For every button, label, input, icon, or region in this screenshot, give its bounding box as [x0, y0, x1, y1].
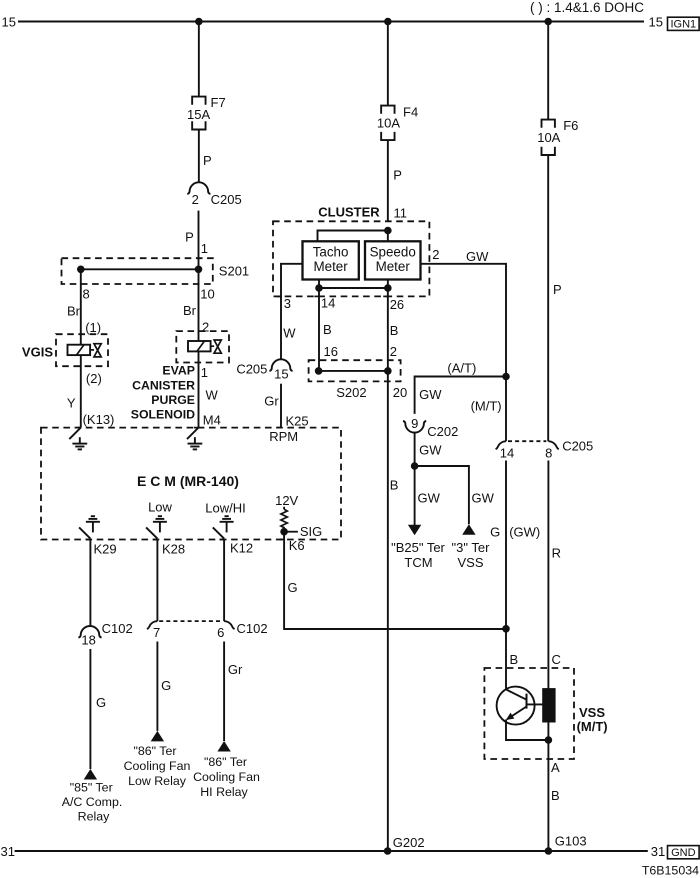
CLUSTER dashed box [273, 221, 429, 296]
arrow to A/C comp relay [84, 769, 97, 780]
pin tick K29 [86, 539, 91, 541]
VSS dashed box [484, 668, 574, 759]
pin tick K28 [153, 539, 158, 541]
EVAP dashed box [176, 331, 229, 362]
transistor base bar [526, 694, 528, 709]
svg-text:P: P [185, 230, 194, 245]
pin tick K25 [276, 427, 281, 429]
svg-text:11: 11 [394, 206, 408, 221]
wire S201 to VGIS [80, 269, 82, 344]
svg-text:8: 8 [545, 446, 552, 461]
svg-text:16: 16 [324, 344, 338, 359]
svg-text:12V: 12V [275, 493, 298, 508]
bus 15 ignition rail [18, 21, 644, 23]
svg-text:10A: 10A [377, 116, 400, 131]
svg-text:F6: F6 [563, 118, 578, 133]
node VSS emitter junction [545, 736, 553, 744]
fuse F6 [542, 120, 555, 128]
wire S201 internal link [81, 268, 199, 270]
svg-text:K12: K12 [230, 541, 253, 556]
solenoid VGIS valve stub [90, 349, 94, 351]
dashed link C102 [159, 620, 222, 622]
svg-text:G: G [490, 524, 500, 539]
switch K13 blade [69, 428, 81, 440]
ground M4 [194, 437, 196, 443]
svg-text:18: 18 [81, 632, 95, 647]
svg-text:Relay: Relay [78, 809, 110, 823]
svg-text:(2): (2) [86, 371, 102, 386]
solenoid VGIS valve [94, 344, 101, 357]
pin tick K13 [76, 427, 81, 429]
connector C205 pin 14 hook [496, 441, 506, 449]
transistor VSS sensor circle [497, 687, 535, 725]
svg-text:C202: C202 [427, 424, 458, 439]
svg-text:W: W [206, 387, 219, 402]
svg-text:G: G [96, 695, 106, 710]
svg-text:(A/T): (A/T) [447, 361, 476, 376]
transistor emitter line [507, 707, 527, 720]
svg-text:IGN1: IGN1 [670, 19, 696, 31]
switch M4 blade [187, 428, 199, 440]
arrow in from VSS 3 [462, 524, 475, 535]
svg-text:G202: G202 [393, 835, 425, 850]
pin tick 26 [383, 295, 388, 297]
wire meters bottom link [319, 287, 388, 289]
svg-text:(M/T): (M/T) [471, 399, 502, 414]
svg-text:31: 31 [651, 844, 665, 859]
svg-text:GW: GW [419, 443, 442, 458]
svg-text:10A: 10A [537, 130, 560, 145]
svg-text:P: P [553, 282, 562, 297]
switch K29 blade [79, 527, 90, 538]
wire C202 to GW split [414, 433, 416, 466]
svg-text:(1): (1) [85, 320, 101, 335]
svg-text:VSS: VSS [579, 705, 605, 720]
GND terminal box [668, 846, 700, 859]
wire EVAP to ECM M4 [198, 351, 200, 427]
svg-text:E C M (MR-140): E C M (MR-140) [137, 473, 239, 489]
svg-text:TCM: TCM [404, 555, 432, 570]
node rail-F4 [384, 18, 392, 26]
svg-text:VSS: VSS [457, 555, 483, 570]
svg-text:GW: GW [466, 249, 489, 264]
bus 31 ground rail [15, 850, 648, 852]
svg-text:GW: GW [418, 490, 441, 505]
arrow to cooling fan low relay [151, 731, 164, 742]
wire speedo pin26 to ground G202 [387, 280, 389, 852]
connector C205 pin 8 hook [548, 441, 558, 449]
wire rail to F4 [387, 22, 389, 106]
wire 6 to relay arrow [223, 642, 225, 742]
svg-text:K29: K29 [94, 541, 117, 556]
svg-text:GW: GW [419, 387, 442, 402]
svg-text:S201: S201 [219, 263, 249, 278]
speedo meter box [365, 241, 421, 279]
svg-text:Cooling Fan: Cooling Fan [193, 770, 260, 784]
node ground G202 [384, 847, 392, 855]
splice S202 box [309, 360, 401, 381]
pin tick 14 [314, 295, 319, 297]
node ground G103 [545, 847, 553, 855]
svg-text:G103: G103 [555, 833, 587, 848]
svg-text:C205: C205 [236, 362, 267, 377]
svg-text:Tacho: Tacho [313, 245, 349, 260]
svg-text:G: G [288, 580, 298, 595]
connector C205 pin 2 [187, 182, 210, 194]
ground K29 inverted [92, 522, 94, 533]
svg-text:14: 14 [500, 446, 514, 461]
wire pin11 to speedo [387, 231, 389, 242]
svg-text:C205: C205 [562, 439, 593, 454]
wire VGIS to ECM K13 [80, 355, 82, 428]
node A/T junction [502, 373, 510, 381]
switch K28 blade [146, 527, 157, 538]
wire F7 to C205 pin2 [198, 130, 200, 183]
svg-text:B: B [510, 652, 519, 667]
svg-text:B: B [390, 477, 399, 492]
wire C205 pin15 to ECM K25 [280, 384, 282, 428]
splice S201 box [62, 258, 213, 284]
svg-text:S202: S202 [336, 385, 366, 400]
wire pin11 branch to tacho [318, 231, 388, 242]
svg-text:"3" Ter: "3" Ter [452, 540, 491, 555]
wire split to VSS arrow [415, 466, 469, 524]
svg-text:K28: K28 [162, 541, 185, 556]
pin tick 3 [276, 295, 281, 297]
wire rail to F6 [547, 22, 549, 120]
connector C205 pin 15 [269, 359, 292, 371]
svg-text:G: G [161, 678, 171, 693]
svg-text:Speedo: Speedo [370, 245, 416, 260]
svg-text:VGIS: VGIS [22, 345, 53, 360]
svg-text:PURGE: PURGE [151, 393, 195, 407]
node S202 right [384, 367, 392, 375]
pin tick M4 [194, 427, 199, 429]
wire 7 to relay arrow [156, 642, 158, 731]
svg-text:M4: M4 [203, 413, 221, 428]
svg-text:2: 2 [432, 247, 439, 262]
node meters link left [315, 284, 323, 292]
svg-text:7: 7 [153, 625, 160, 640]
svg-text:(M/T): (M/T) [577, 719, 608, 734]
wire F4 to cluster [387, 140, 389, 221]
svg-text:Br: Br [67, 303, 81, 318]
svg-text:Meter: Meter [313, 259, 348, 274]
solenoid EVAP valve stub [211, 345, 215, 347]
svg-text:F4: F4 [403, 104, 418, 119]
arrow to cooling fan hi relay [217, 741, 230, 752]
svg-text:(GW): (GW) [509, 524, 540, 539]
pin tick K6 [280, 539, 285, 541]
switch K12 blade [213, 527, 224, 538]
solenoid VGIS coil [68, 345, 91, 355]
svg-text:P: P [393, 167, 402, 182]
svg-text:B: B [323, 322, 332, 337]
node SIG [280, 528, 288, 536]
svg-text:A/C Comp.: A/C Comp. [62, 795, 123, 809]
svg-text:Meter: Meter [376, 259, 411, 274]
svg-text:"86" Ter: "86" Ter [204, 755, 247, 769]
svg-text:2: 2 [202, 319, 209, 334]
svg-text:EVAP: EVAP [162, 364, 195, 378]
wire K12 to C102 pin6 [223, 539, 225, 622]
svg-text:6: 6 [217, 625, 224, 640]
svg-text:K6: K6 [289, 538, 305, 553]
connector C202 pin 9 [403, 421, 426, 433]
svg-text:Low Relay: Low Relay [128, 774, 187, 788]
svg-text:C205: C205 [211, 192, 242, 207]
svg-text:20: 20 [393, 385, 407, 400]
svg-text:C102: C102 [237, 621, 268, 636]
solenoid EVAP valve [214, 340, 221, 353]
svg-text:SIG: SIG [300, 524, 322, 539]
node meters link right [384, 284, 392, 292]
svg-text:"86" Ter: "86" Ter [133, 744, 176, 758]
ground K12 inverted [226, 522, 228, 533]
svg-text:K25: K25 [286, 414, 309, 429]
wire split to TCM arrow [414, 466, 416, 525]
svg-text:2: 2 [192, 192, 199, 207]
svg-text:Gr: Gr [228, 662, 243, 677]
svg-text:15: 15 [649, 15, 663, 30]
node GW split [411, 462, 419, 470]
svg-text:1: 1 [201, 241, 208, 256]
wire K6 to G-B junction [284, 532, 506, 629]
node rail-F6 [544, 18, 552, 26]
tacho meter box [303, 241, 359, 279]
solenoid EVAP coil [188, 341, 211, 351]
svg-text:B: B [551, 788, 560, 803]
wire C205 to splice S201 [198, 211, 200, 270]
svg-text:P: P [203, 153, 212, 168]
svg-text:T6B15034: T6B15034 [642, 864, 699, 878]
svg-text:31: 31 [1, 844, 15, 859]
wire B to transistor [505, 629, 507, 690]
svg-text:15A: 15A [187, 107, 210, 122]
svg-text:F7: F7 [211, 95, 226, 110]
svg-text:15: 15 [274, 367, 288, 382]
wire 18 to relay arrow [89, 649, 91, 769]
svg-text:R: R [552, 545, 561, 560]
svg-text:A: A [551, 760, 560, 775]
svg-text:8: 8 [83, 287, 90, 302]
wire A/T junction to C205 pin14 [505, 377, 507, 442]
svg-text:3: 3 [284, 296, 291, 311]
svg-text:Br: Br [183, 303, 197, 318]
connector C102 pin 7 hook [147, 621, 157, 629]
node S202 left [315, 367, 323, 375]
IGN1 terminal box [668, 17, 700, 30]
VGIS dashed box [56, 334, 108, 366]
wire C205 pin8 to VSS [547, 461, 549, 852]
fuse F7 [192, 97, 205, 105]
wire S202 internal link [319, 370, 388, 372]
transistor emitter arrowhead [506, 713, 514, 720]
transistor base to pickup [527, 703, 543, 705]
wire speedo pin2 GW [421, 264, 507, 377]
connector C102 pin 18 [78, 626, 101, 638]
svg-text:26: 26 [390, 297, 404, 312]
svg-text:10: 10 [200, 287, 214, 302]
wire C205 pin14 to B junction [505, 461, 507, 629]
svg-text:"85" Ter: "85" Ter [70, 781, 113, 795]
svg-text:(K13): (K13) [83, 412, 115, 427]
node S201 right [195, 266, 203, 274]
svg-text:Cooling Fan: Cooling Fan [124, 759, 191, 773]
wire 12V to resistor [283, 507, 285, 509]
ECM dashed box [41, 428, 341, 540]
node G-B junction [502, 625, 510, 633]
transistor collector line [506, 689, 527, 699]
wire emitter to junction [506, 720, 548, 741]
svg-text:2: 2 [390, 344, 397, 359]
wire S201 to EVAP [198, 269, 200, 341]
fuse F4 [381, 106, 394, 114]
svg-text:C: C [552, 652, 561, 667]
svg-text:CANISTER: CANISTER [132, 378, 195, 392]
wire K28 to C102 pin7 [156, 539, 158, 622]
svg-text:C102: C102 [102, 621, 133, 636]
wire rail to F7 [198, 22, 200, 97]
svg-text:1: 1 [201, 365, 208, 380]
arrow out to TCM [408, 525, 421, 536]
svg-text:CLUSTER: CLUSTER [318, 204, 380, 219]
dashed link C205 [508, 440, 546, 442]
node cluster pin11 [384, 227, 392, 235]
svg-text:"B25" Ter: "B25" Ter [391, 540, 445, 555]
VSS pickup element [543, 689, 555, 722]
svg-text:W: W [283, 325, 296, 340]
svg-text:RPM: RPM [269, 429, 298, 444]
svg-text:SOLENOID: SOLENOID [131, 407, 195, 421]
svg-text:14: 14 [321, 296, 335, 311]
svg-text:Y: Y [67, 396, 76, 411]
svg-text:GW: GW [472, 490, 495, 505]
svg-text:Low: Low [148, 500, 172, 515]
wire tacho pin14 to S202 pin16 [318, 280, 320, 371]
svg-text:Gr: Gr [264, 394, 279, 409]
ground K28 inverted [159, 522, 161, 533]
pin tick K12 [220, 539, 225, 541]
wire K29 to C102 pin18 [89, 539, 91, 626]
resistor SIG pull-up [281, 509, 287, 532]
wire SIG stub [288, 531, 298, 533]
wire F6 to C205 pin8 [547, 155, 549, 441]
svg-text:HI Relay: HI Relay [200, 785, 248, 799]
svg-text:B: B [390, 323, 399, 338]
node rail-F7 [195, 18, 203, 26]
svg-text:( ) : 1.4&1.6 DOHC: ( ) : 1.4&1.6 DOHC [530, 0, 644, 15]
ground K13 [79, 437, 81, 443]
connector C102 pin 6 hook [224, 621, 234, 629]
wire A/T branch to C202 [415, 377, 506, 414]
svg-text:GND: GND [671, 847, 696, 859]
svg-text:15: 15 [2, 15, 16, 30]
svg-text:Low/HI: Low/HI [205, 501, 245, 516]
node S201 left [77, 266, 85, 274]
svg-text:9: 9 [411, 416, 418, 431]
wire tacho pin3 to C205 pin15 [281, 264, 303, 360]
